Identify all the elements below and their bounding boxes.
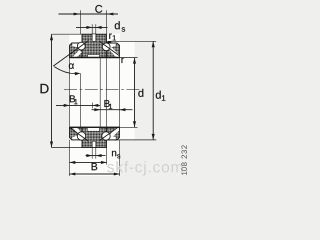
right shaft washer half (top) <box>107 43 120 58</box>
dimension B1 right label <box>104 100 109 107</box>
housing washer rib (bottom, hatched) <box>82 127 107 147</box>
dimension d arrows <box>133 58 136 64</box>
white drawing zone (bearing footprint) <box>69 41 134 139</box>
dimension B2 arrows <box>70 161 76 164</box>
dimension d1 extension top <box>108 40 157 42</box>
dimension C line <box>59 13 119 15</box>
extension line x100.2 (washer split) <box>99 58 101 128</box>
dimension d1 extension bottom <box>107 139 157 141</box>
raceway cut right (top) <box>109 44 116 48</box>
angle alpha label <box>69 63 74 68</box>
ball left (bottom row) <box>77 132 85 140</box>
raceway cut left (bottom) <box>72 136 79 140</box>
fillet r1 leader arrow <box>106 41 112 44</box>
bore line of top section (thick) <box>70 57 120 59</box>
contact line left (alpha line) <box>53 41 88 67</box>
extension line x69.5 (left face) <box>69 58 71 128</box>
cage band left (bottom) <box>72 127 82 135</box>
dimension D label <box>41 84 49 93</box>
dimension B1 left tick <box>92 103 94 109</box>
dimension B1 left line <box>56 104 100 106</box>
contact line right (bottom) <box>100 127 119 140</box>
contact line right <box>100 41 120 55</box>
watermark skf-cj.com <box>107 161 182 175</box>
dimension ns line <box>86 155 106 157</box>
raceway cut left (top) <box>72 44 79 48</box>
dimension ns arrows <box>86 154 92 157</box>
cage band right (top) <box>109 46 119 57</box>
ball right (bottom row) <box>102 132 110 140</box>
dimension d label <box>138 89 143 97</box>
extension line x81.8 (rib left edge) <box>79 10 81 34</box>
dimension ds extension lines <box>91 24 93 34</box>
dimension d1 arrows <box>152 42 155 48</box>
dimension B1 left arrows <box>64 104 70 107</box>
dimension C label <box>95 5 102 13</box>
dimension d line <box>134 58 136 128</box>
dimension d extension bottom <box>120 126 138 128</box>
dimension ds line <box>76 26 108 28</box>
image number 108 232 (vertical) <box>181 145 187 175</box>
extension line x106.5 (rib right edge) <box>106 10 108 34</box>
dimension B line <box>70 173 120 175</box>
ball right (top row) <box>102 43 110 51</box>
bore line of bottom section (thick) <box>70 126 120 128</box>
extension line x119.6 (right face) <box>119 58 121 128</box>
fillet r label <box>121 58 124 63</box>
left shaft washer half (top) <box>70 43 83 58</box>
lubrication hole slot (top rib) <box>92 34 96 41</box>
fillet r1 label <box>109 34 112 39</box>
cage band right (bottom) <box>109 127 119 138</box>
dimension d1 label <box>156 91 161 99</box>
axis centerline (dash-dot) <box>64 88 140 90</box>
dimension d1 line <box>152 41 154 140</box>
dimension ns label <box>112 151 116 156</box>
contact line left (bottom) <box>70 128 89 141</box>
dimension B arrows <box>70 172 76 175</box>
dimension d extension top <box>120 57 138 59</box>
ball left (top row) <box>77 42 85 50</box>
dimension D line <box>51 34 53 147</box>
clearance groove (top rib, bore side) <box>88 55 100 58</box>
clearance groove (bottom rib, bore side) <box>87 128 99 132</box>
cage band left (top) <box>72 50 82 58</box>
dimension D extension top <box>52 33 83 35</box>
dimension ds arrows <box>86 26 92 29</box>
dimension C arrows <box>74 13 81 16</box>
dimension B1 left label <box>70 95 75 102</box>
housing washer rib (top, hatched) <box>82 34 107 57</box>
raceway cut right (bottom) <box>109 136 116 140</box>
dimension D arrows <box>50 34 53 40</box>
left shaft washer half (bottom) <box>70 127 83 140</box>
angle alpha arc arrow <box>54 67 79 74</box>
dimension B1 right line <box>92 109 133 111</box>
dimension ds label <box>115 21 120 29</box>
dimension D extension bottom <box>52 147 83 149</box>
right shaft washer half (bottom) <box>107 127 120 140</box>
lubrication hole slot (bottom rib) <box>92 141 96 147</box>
dimension B label <box>92 163 98 170</box>
dimension B1 right arrows <box>94 108 100 111</box>
dimension ns extension lines <box>91 148 93 159</box>
dimension B2 line <box>70 161 107 163</box>
extension line x80.6 (angle reference) <box>80 73 82 127</box>
